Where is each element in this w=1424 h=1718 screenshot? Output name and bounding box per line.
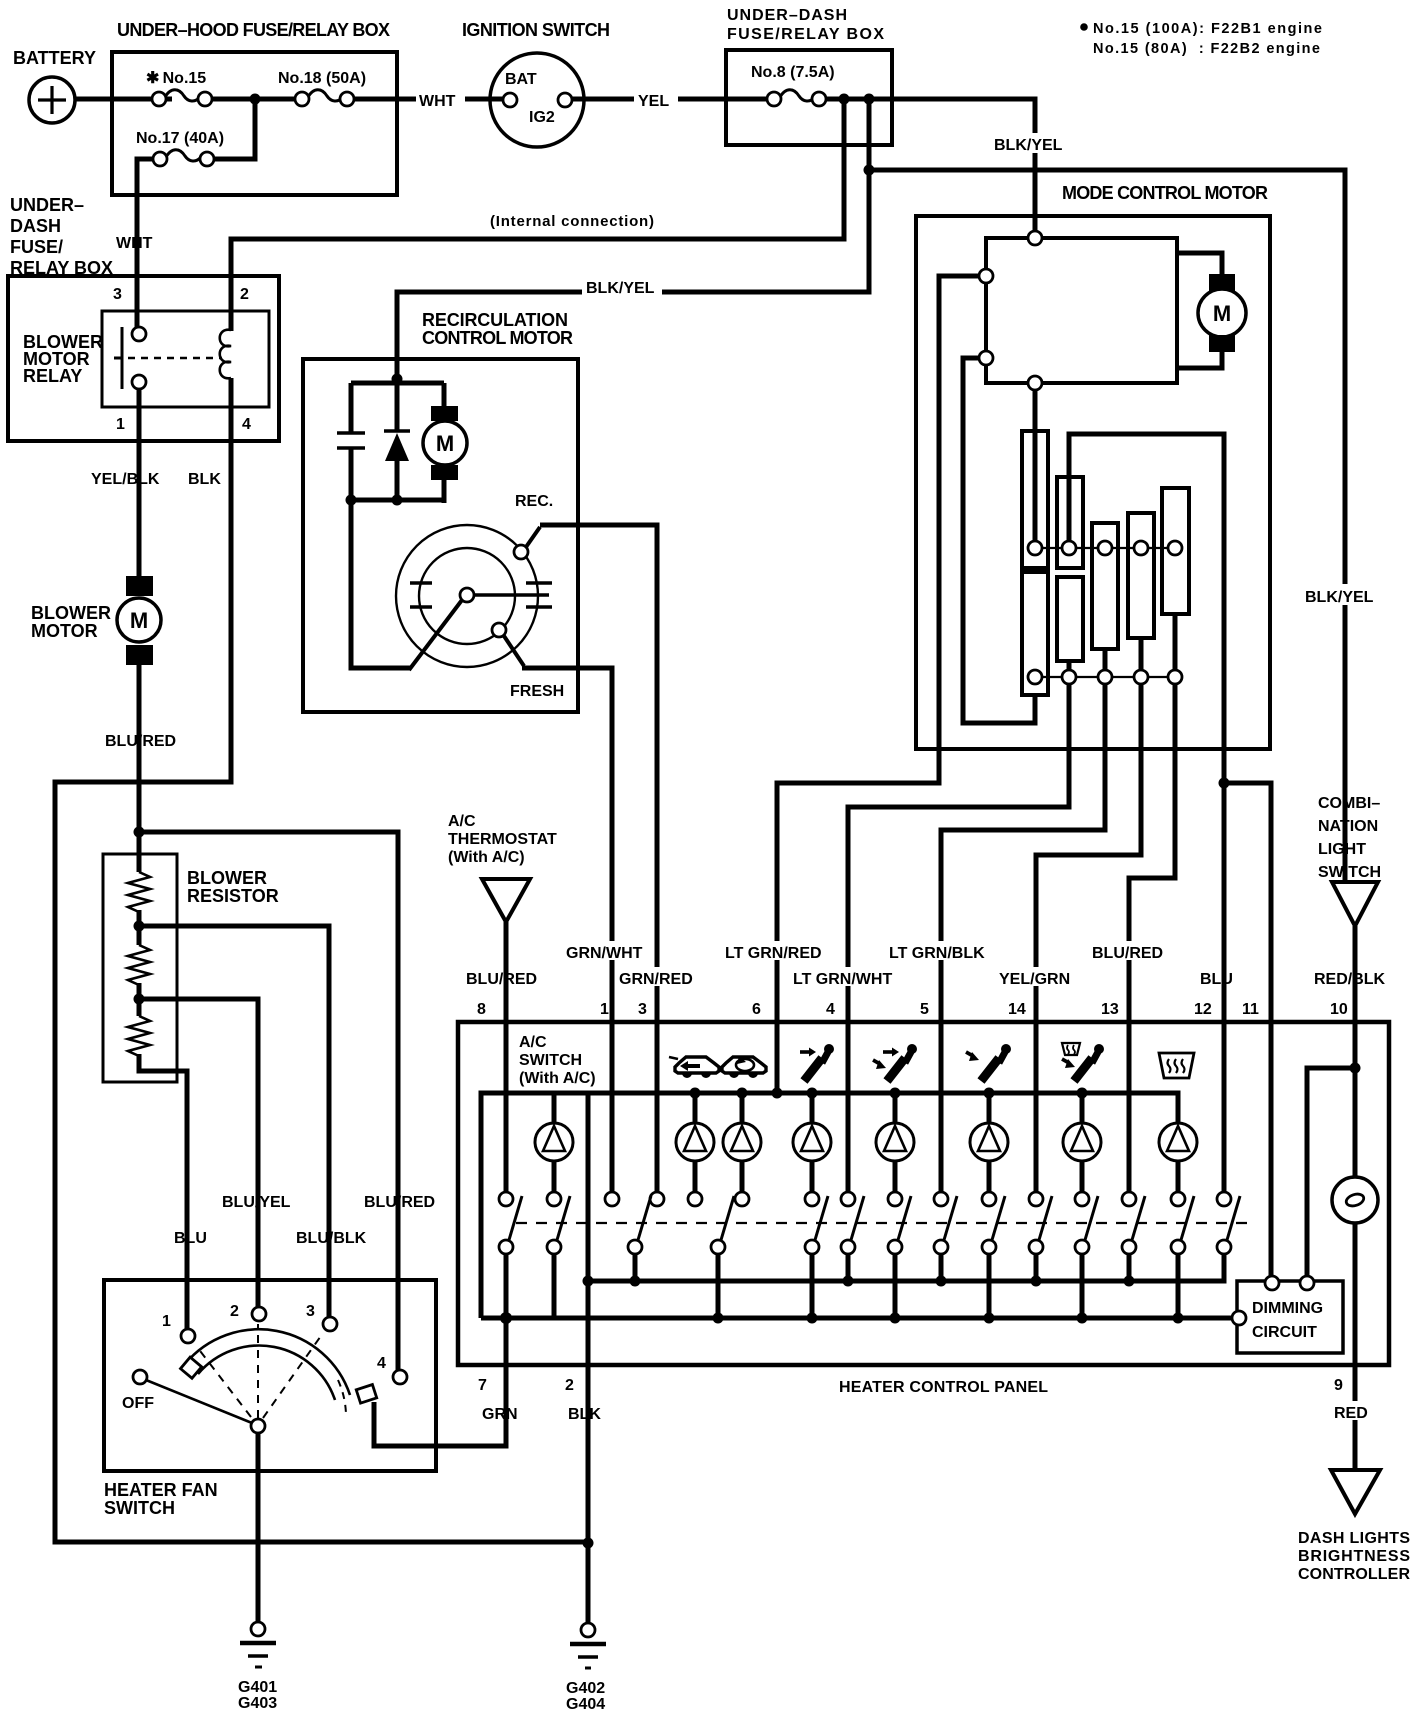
heater panel switch S2 contact pin3 top contact: [650, 1192, 664, 1206]
svg-text:SWITCH: SWITCH: [104, 1498, 175, 1518]
band left tab: [180, 1357, 201, 1378]
indicator lamp L7 heat-def: [1063, 1093, 1101, 1192]
resistor R3: [128, 1016, 150, 1056]
slider C2 upper: [1057, 477, 1083, 568]
heater panel switch S12 defrost-lamp switch top contact: [1171, 1192, 1194, 1318]
svg-text:LT GRN/RED: LT GRN/RED: [725, 945, 822, 962]
indicator lamp L6 heat: [970, 1093, 1008, 1192]
wire rotor common to ground: [256, 1433, 261, 1622]
recirculation control motor box: [303, 310, 578, 712]
svg-text:CONTROLLER: CONTROLLER: [1298, 1566, 1410, 1583]
fuse No.15: [146, 70, 212, 106]
heater panel switch S10 heatdef-lamp switch top contact: [1075, 1192, 1098, 1318]
svg-text:G403: G403: [238, 1695, 277, 1712]
capacitor C1: [349, 383, 354, 433]
fan switch detent band: [185, 1329, 350, 1395]
svg-text:2: 2: [240, 286, 249, 303]
svg-text:BLU/RED: BLU/RED: [364, 1194, 435, 1211]
heater panel switch S2 common bottom contact: [628, 1196, 651, 1281]
svg-text:HEATER FAN: HEATER FAN: [104, 1480, 218, 1500]
svg-text:WHT: WHT: [116, 235, 153, 252]
wire blower motor BLU/RED down: [137, 664, 142, 872]
relay coil L1: [220, 330, 231, 379]
heater panel switch S8 heat-lamp switch top contact: [982, 1192, 1005, 1318]
fan switch wiper arm: [146, 1380, 252, 1423]
wire pin6 stub to bus: [772, 1088, 783, 1099]
svg-text:No.8 (7.5A): No.8 (7.5A): [751, 64, 835, 81]
svg-text:M: M: [130, 608, 148, 633]
svg-text:GRN/WHT: GRN/WHT: [566, 945, 643, 962]
wire resistor bottom BLU to fan switch contact 1: [139, 1054, 187, 1329]
fan switch dashed rays: [197, 1324, 323, 1418]
fan switch contact 1: [181, 1329, 195, 1343]
wire band tab to GRN pin7 run: [374, 1365, 506, 1446]
svg-text:BLU/RED: BLU/RED: [1092, 945, 1163, 962]
svg-text:1: 1: [600, 1001, 609, 1018]
indicator lamp L2 recirc: [676, 1093, 714, 1192]
under-dash fuse/relay box (left): [8, 195, 279, 441]
recirc rotary switch inner ring: [419, 548, 515, 644]
wire C5 bottom to pin 13: [1129, 684, 1175, 1192]
node resistor tap2: [137, 983, 142, 1016]
wire fuse18 to ignition switch (WHT): [354, 97, 503, 102]
svg-text:M: M: [1213, 301, 1231, 326]
svg-text:FUSE/RELAY BOX: FUSE/RELAY BOX: [727, 26, 884, 43]
svg-text:G401: G401: [238, 1679, 277, 1696]
wire BLU/RED to heater fan switch contact 4: [139, 832, 398, 1370]
svg-text:3: 3: [306, 1303, 315, 1320]
pin number labels: [477, 1001, 1348, 1018]
slider C2 lower: [1057, 577, 1083, 661]
junction dots lamp bus: [690, 1088, 701, 1099]
band right tab: [356, 1385, 376, 1404]
dash lights brightness controller: [1298, 1470, 1410, 1583]
svg-text:BLK/YEL: BLK/YEL: [994, 137, 1063, 154]
wire C3 bottom to pin 5: [941, 684, 1105, 1192]
svg-text:FRESH: FRESH: [510, 683, 564, 700]
wire FRESH to panel pin 1: [522, 668, 612, 1192]
wire internal connection to relay pin2: [231, 99, 844, 331]
wire pin10 RED/BLK through bulb: [1353, 926, 1358, 1470]
recirc left contact plates: [410, 583, 432, 607]
dimming circuit box: [1232, 1276, 1343, 1353]
heater panel switch S4 vent-lamp switch top contact: [805, 1192, 828, 1318]
mode terminal left lower: [979, 351, 993, 365]
under-hood fuse/relay box: [112, 20, 397, 195]
svg-text:YEL: YEL: [638, 93, 669, 110]
wire color labels above panel: [466, 941, 1386, 988]
icon defrost mode: [1159, 1053, 1194, 1078]
heater panel switch S5 pin4 switch top contact: [841, 1192, 864, 1281]
wire BLK pin2 to ground: [586, 1365, 591, 1623]
svg-text:UNDER–HOOD FUSE/RELAY BOX: UNDER–HOOD FUSE/RELAY BOX: [117, 20, 390, 40]
svg-text:RELAY: RELAY: [23, 366, 82, 386]
fan switch OFF contact: [133, 1370, 147, 1384]
heater panel switch S11 pin13 switch top contact: [1122, 1192, 1145, 1281]
mode terminal left upper: [979, 269, 993, 283]
wire BLK/YEL to right edge and recirc motor: [397, 99, 869, 384]
svg-text:BLK/YEL: BLK/YEL: [586, 280, 655, 297]
svg-text:THERMOSTAT: THERMOSTAT: [448, 831, 557, 848]
svg-text:FUSE/: FUSE/: [10, 237, 63, 257]
icon vent mode: [800, 1044, 834, 1081]
wire thermostat BLU/RED to pin 8: [504, 922, 509, 1192]
svg-text:11: 11: [1242, 1001, 1259, 1018]
svg-text:10: 10: [1330, 1001, 1348, 1018]
svg-text:BLK: BLK: [568, 1406, 601, 1423]
wiper row 2: [1028, 614, 1182, 684]
wire bar to wiper arm: [351, 500, 411, 668]
junction dot BLK/YEL branch: [864, 94, 875, 105]
wire dimming riser to pin10 junction: [1307, 1068, 1355, 1276]
svg-text:BLU: BLU: [1200, 971, 1233, 988]
wire fuse17 to WHT down-feed: [137, 159, 153, 340]
wire ignition to under-dash box (YEL): [572, 97, 768, 102]
wire lamp bus: [481, 1093, 1178, 1318]
fuse No.18 (50A): [278, 70, 366, 106]
svg-text:NATION: NATION: [1318, 818, 1378, 835]
wire pin2 riser BLK: [586, 1093, 591, 1365]
heater panel switch S1b A/C (lamp pole) top contact: [547, 1192, 570, 1318]
ground G402 G404: [566, 1623, 606, 1713]
node recirc feed junction: [392, 374, 403, 385]
svg-text:(With A/C): (With A/C): [519, 1070, 596, 1087]
svg-text:No.17 (40A): No.17 (40A): [136, 130, 224, 147]
svg-text:(Internal connection): (Internal connection): [490, 213, 654, 230]
mode terminal top: [1028, 231, 1042, 245]
svg-text:HEATER CONTROL PANEL: HEATER CONTROL PANEL: [839, 1379, 1048, 1396]
svg-text:No.15 (100A): F22B1 engine: No.15 (100A): F22B1 engine: [1093, 21, 1322, 37]
heater panel switch S3 contact recirc-lamp top contact: [688, 1192, 702, 1206]
heater panel switch S2 contact pin1 top contact: [605, 1192, 619, 1206]
node resistor tap1: [137, 910, 142, 945]
svg-text:IGNITION SWITCH: IGNITION SWITCH: [462, 20, 610, 40]
wire C2 bottom to pin 4: [848, 684, 1069, 1192]
svg-text:CIRCUIT: CIRCUIT: [1252, 1324, 1317, 1341]
mode control motor box: [916, 183, 1270, 749]
diode D1: [395, 383, 400, 432]
svg-text:BRIGHTNESS: BRIGHTNESS: [1298, 1548, 1410, 1565]
svg-text:BATTERY: BATTERY: [13, 48, 96, 68]
svg-text:9: 9: [1334, 1377, 1343, 1394]
svg-text:12: 12: [1194, 1001, 1212, 1018]
under-dash fuse/relay box (top): [726, 7, 892, 145]
heater panel switch S1a A/C (pin8 pole) top contact: [499, 1192, 522, 1446]
engine note: [1080, 21, 1322, 57]
wire recirc bottom bar: [348, 498, 444, 503]
svg-text:COMBI–: COMBI–: [1318, 795, 1380, 812]
svg-text:DASH LIGHTS: DASH LIGHTS: [1298, 1530, 1410, 1547]
heater panel switch S9 pin14 switch top contact: [1029, 1192, 1052, 1281]
svg-text:RED: RED: [1334, 1405, 1368, 1422]
recirc rotary switch outer ring: [396, 525, 538, 667]
svg-text:BLK/YEL: BLK/YEL: [1305, 589, 1374, 606]
svg-text:RED/BLK: RED/BLK: [1314, 971, 1386, 988]
svg-text:RESISTOR: RESISTOR: [187, 886, 279, 906]
svg-text:RECIRCULATION: RECIRCULATION: [422, 310, 568, 330]
svg-text:BLOWER: BLOWER: [187, 868, 267, 888]
heater panel switch S7 pin5 switch top contact: [934, 1192, 957, 1281]
wire bus3 BLK: [588, 1254, 1224, 1281]
svg-text:3: 3: [113, 286, 122, 303]
indicator lamp L4 vent: [793, 1093, 831, 1192]
heater control panel box: [458, 1022, 1389, 1396]
indicator lamp L8 defrost: [1159, 1123, 1197, 1192]
junction dot pin 11 branch: [1219, 778, 1230, 789]
svg-text:YEL/BLK: YEL/BLK: [91, 471, 160, 488]
svg-text:DIMMING: DIMMING: [1252, 1300, 1323, 1317]
svg-text:REC.: REC.: [515, 493, 553, 510]
wire left-lower terminal to slider C1: [963, 358, 1035, 723]
wire relay pin1 YEL/BLK to blower motor: [137, 389, 142, 577]
svg-text:13: 13: [1101, 1001, 1119, 1018]
svg-text:G402: G402: [566, 1680, 605, 1697]
svg-text:✱ No.15: ✱ No.15: [146, 70, 206, 87]
mode terminal bottom: [1028, 376, 1042, 390]
recirc right contact plates: [526, 583, 552, 607]
svg-text:YEL/GRN: YEL/GRN: [999, 971, 1070, 988]
svg-text:LT GRN/WHT: LT GRN/WHT: [793, 971, 892, 988]
junction dot BLK ground: [583, 1538, 594, 1549]
resistor R2: [128, 945, 150, 985]
svg-text:G404: G404: [566, 1696, 605, 1713]
blower motor M1: [31, 576, 161, 665]
recirc wiper hub: [460, 588, 474, 602]
svg-text:MOTOR: MOTOR: [31, 621, 98, 641]
recirc wiper arm: [409, 600, 462, 670]
heater panel switch S3 common bottom contact: [711, 1196, 734, 1318]
wire C4 bottom to pin 14: [1036, 684, 1141, 1192]
relay link dashed: [128, 357, 222, 359]
svg-text:M: M: [436, 431, 454, 456]
svg-text:A/C: A/C: [448, 813, 476, 830]
heater fan switch box: [104, 1280, 436, 1518]
svg-text:4: 4: [826, 1001, 835, 1018]
slider C4: [1128, 513, 1154, 638]
svg-text:2: 2: [230, 1303, 239, 1320]
icon bi-level mode: [873, 1044, 917, 1081]
heater panel switch S6 bilevel-lamp switch top contact: [888, 1192, 911, 1318]
svg-text:No.15 (80A) : F22B2 engine: No.15 (80A) : F22B2 engine: [1093, 41, 1320, 57]
svg-text:BLOWER: BLOWER: [31, 603, 111, 623]
fan switch contact 3: [323, 1317, 337, 1331]
svg-text:A/C: A/C: [519, 1034, 547, 1051]
fan switch dashed arc: [338, 1380, 346, 1416]
svg-text:BLU/BLK: BLU/BLK: [296, 1230, 367, 1247]
svg-text:WHT: WHT: [419, 93, 456, 110]
icon heat-defrost mode: [1062, 1043, 1104, 1081]
svg-text:DASH: DASH: [10, 216, 61, 236]
icon heat mode: [966, 1044, 1011, 1081]
fuse No.8 (7.5A): [751, 64, 835, 106]
svg-text:5: 5: [920, 1001, 929, 1018]
wire fuse15 to junction to fuse18: [212, 97, 296, 102]
wire pin11 to dimming: [1269, 1022, 1274, 1276]
svg-text:BLK: BLK: [188, 471, 221, 488]
svg-text:OFF: OFF: [122, 1395, 154, 1412]
slider C3: [1092, 523, 1118, 649]
ground G401 G403: [238, 1622, 277, 1712]
svg-text:1: 1: [116, 416, 125, 433]
mode motor M3: [1177, 253, 1246, 368]
svg-text:2: 2: [565, 1377, 574, 1394]
wire bottom terminal to slider C1: [1033, 390, 1038, 542]
svg-text:4: 4: [242, 416, 251, 433]
svg-text:GRN: GRN: [482, 1406, 518, 1423]
fan switch rotor pivot: [251, 1419, 265, 1433]
icon fresh-air car: [722, 1056, 766, 1078]
svg-text:BAT: BAT: [505, 71, 537, 88]
resistor R1: [128, 872, 150, 912]
svg-text:IG2: IG2: [529, 109, 555, 126]
fan switch contact 2: [252, 1307, 266, 1321]
wire tap2 BLU/YEL to fan switch contact 2: [139, 999, 258, 1307]
wire C2 top to pin 12: [1069, 434, 1224, 1192]
slider C5: [1162, 488, 1189, 614]
A/C switch label: [519, 1034, 596, 1087]
slider C1 upper: [1022, 431, 1048, 568]
svg-text:4: 4: [377, 1355, 386, 1372]
svg-text:GRN/RED: GRN/RED: [619, 971, 693, 988]
panel bulb: [1332, 1177, 1378, 1223]
svg-text:14: 14: [1008, 1001, 1026, 1018]
svg-text:3: 3: [638, 1001, 647, 1018]
blower motor relay box: [23, 311, 269, 407]
wiper row 1: [1028, 541, 1182, 555]
svg-text:LT GRN/BLK: LT GRN/BLK: [889, 945, 985, 962]
svg-text:7: 7: [478, 1377, 487, 1394]
wire branch to pin 11 dimming: [1224, 783, 1271, 1276]
relay switch contacts: [132, 327, 146, 341]
svg-text:6: 6: [752, 1001, 761, 1018]
junction dot A (under-hood): [250, 94, 261, 105]
svg-text:BLU/RED: BLU/RED: [466, 971, 537, 988]
svg-text:No.18 (50A): No.18 (50A): [278, 70, 366, 87]
wire left-upper terminal to pin 6: [777, 276, 979, 1090]
slider C1 lower: [1022, 572, 1048, 695]
svg-text:MODE CONTROL MOTOR: MODE CONTROL MOTOR: [1062, 183, 1268, 203]
svg-text:CONTROL MOTOR: CONTROL MOTOR: [422, 328, 573, 348]
dashed gang link: [516, 1222, 1252, 1224]
svg-text:LIGHT: LIGHT: [1318, 841, 1366, 858]
blower resistor box: [103, 854, 279, 1082]
svg-text:(With A/C): (With A/C): [448, 849, 525, 866]
wire battery to under-hood box: [75, 97, 153, 102]
battery B1: [13, 48, 96, 123]
junction dot BLU/RED branch: [134, 827, 145, 838]
recirc motor M2: [442, 383, 447, 406]
icon recirculate car: [669, 1057, 719, 1078]
svg-text:UNDER–: UNDER–: [10, 195, 84, 215]
svg-text:BLU: BLU: [174, 1230, 207, 1247]
svg-text:SWITCH: SWITCH: [1318, 864, 1381, 881]
A/C thermostat: [448, 813, 557, 922]
relay armature: [114, 327, 122, 389]
svg-text:UNDER–DASH: UNDER–DASH: [727, 7, 847, 24]
indicator lamp L1 A/C: [535, 1093, 573, 1192]
fan switch contact 4: [393, 1370, 407, 1384]
svg-text:8: 8: [477, 1001, 486, 1018]
heater panel switch S13 pin12 switch top contact: [1217, 1192, 1240, 1281]
mode position sensor box: [986, 238, 1177, 383]
heater panel switch S3 contact fresh-lamp top contact: [735, 1192, 749, 1206]
ignition switch: [462, 20, 610, 147]
indicator lamp L3 fresh: [723, 1093, 761, 1192]
svg-text:1: 1: [162, 1313, 171, 1330]
svg-text:BLU/YEL: BLU/YEL: [222, 1194, 291, 1211]
svg-text:BLU/RED: BLU/RED: [105, 733, 176, 750]
wire REC to panel pin 3: [540, 525, 657, 1192]
wire fuse8 to mode control motor (BLK/YEL): [826, 99, 1035, 234]
indicator lamp L5 bilevel: [876, 1093, 914, 1192]
junction dot internal-connection branch: [839, 94, 850, 105]
svg-text:SWITCH: SWITCH: [519, 1052, 582, 1069]
fuse No.17 (40A): [136, 99, 255, 166]
wire relay pin4 BLK to ground run: [55, 378, 585, 1542]
combination light switch: [1318, 795, 1381, 926]
wire tap1 BLU/BLK to fan switch contact 3: [139, 926, 329, 1317]
wire bus2 GRN: [481, 1316, 1232, 1321]
